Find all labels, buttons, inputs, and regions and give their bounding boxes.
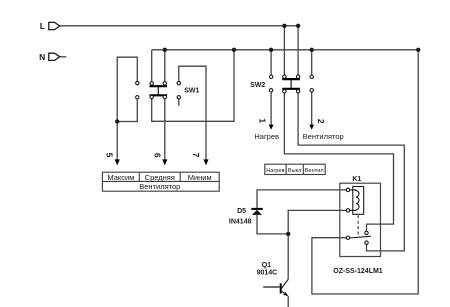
arrow 2 [309,119,326,130]
relay armature link (dashed) [357,215,359,236]
wire live rail [152,49,419,51]
svg-text:1: 1 [258,118,268,123]
relay coil [353,187,364,215]
svg-text:IN4148: IN4148 [229,219,252,226]
svg-text:N: N [39,52,45,62]
wire L drop to SW2 pole b [297,26,299,75]
wire relay common return [312,50,418,294]
svg-text:Нагрев: Нагрев [266,168,284,174]
svg-text:7: 7 [191,153,201,158]
wire rail to SW1 bottom-left contact loop [152,50,234,122]
wire diode anode to junction [257,215,288,234]
wire SW1 right bottom stub [178,99,180,106]
svg-text:Q1: Q1 [262,262,271,269]
wire L drop to SW2 pole a [283,26,285,75]
svg-text:Нагрев: Нагрев [254,132,279,141]
arrow 6 [152,153,167,166]
relay pin circles [346,188,368,244]
switch SW2 [250,75,313,93]
wire SW1 right bracket to arrow 7 [179,66,206,160]
svg-text:Вентил: Вентил [305,168,324,174]
arrow 7 [191,153,208,166]
svg-text:SW1: SW1 [184,88,199,95]
wire junction to Q1 collector [287,234,289,279]
wire rail drop SW2 left contact [270,50,272,75]
svg-text:Средняя: Средняя [145,173,175,182]
svg-text:D5: D5 [237,208,246,215]
wire arrow 5 line [116,122,118,161]
wire SW1 pole b top [164,50,166,82]
wire SW1 pole b to arrow 6 [164,99,166,160]
wire coil top to diode cathode [257,190,346,208]
terminal L [40,21,60,31]
wire SW1 pole a top [151,50,153,82]
wire L rail [60,25,298,27]
mode table [265,164,325,174]
svg-text:9014C: 9014C [257,270,278,277]
wire SW1 left bottom contact [117,99,137,121]
wire SW2 pole b to relay NC [298,93,404,251]
wire coil bottom to junction [288,210,346,234]
arrow 5 [104,153,119,166]
svg-text:SW2: SW2 [250,82,265,89]
wire arrow 1 line [270,92,272,125]
arrow 1 [258,118,274,129]
wire SW1 left bracket [117,57,137,121]
diode D5 [229,208,263,225]
relay armature [350,236,371,238]
wire SW2 pole a to relay NO [284,93,393,231]
svg-text:Вентилятор: Вентилятор [303,132,344,141]
svg-text:Выкл: Выкл [288,168,302,174]
relay K1 [333,176,383,275]
terminal N [39,52,60,62]
svg-text:Максим: Максим [107,173,134,182]
svg-text:OZ-SS-124LM1: OZ-SS-124LM1 [333,268,383,275]
svg-text:6: 6 [152,153,162,158]
switch SW1 [136,81,200,99]
fan speed table [102,172,219,191]
wire rail drop SW2 right contact [311,50,313,75]
svg-text:Вентилятор: Вентилятор [139,182,180,191]
wire N stub [60,56,67,58]
svg-text:L: L [40,21,45,31]
svg-text:2: 2 [316,119,326,124]
svg-text:K1: K1 [352,176,361,183]
svg-text:Миним: Миним [188,173,212,182]
transistor Q1 [257,262,289,307]
svg-text:5: 5 [104,153,114,158]
wire arrow 2 line [311,92,313,125]
